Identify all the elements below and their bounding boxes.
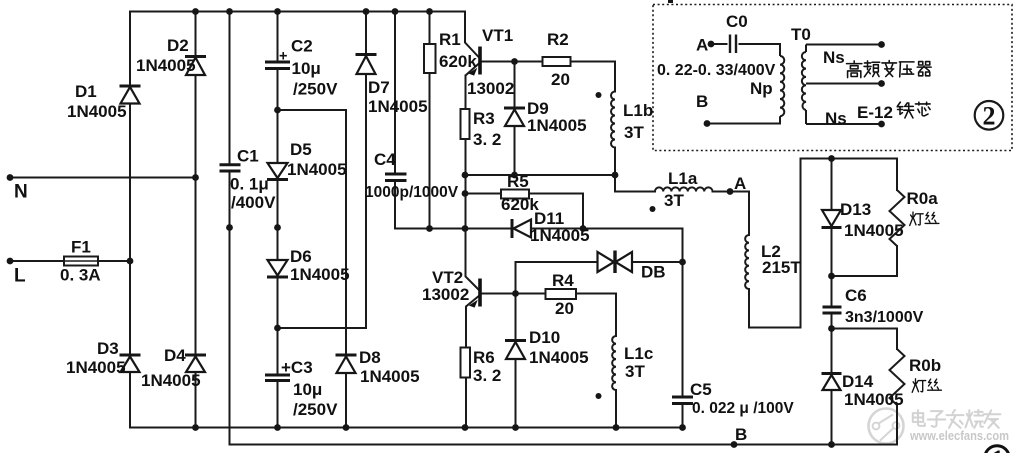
svg-text:1N4005: 1N4005 (844, 221, 904, 240)
svg-text:R1: R1 (439, 30, 461, 49)
svg-text:20: 20 (551, 70, 570, 89)
svg-text:/250V: /250V (293, 400, 338, 419)
svg-text:R6: R6 (473, 348, 495, 367)
svg-text:13002: 13002 (422, 285, 469, 304)
svg-text:T0: T0 (791, 25, 811, 44)
svg-text:D4: D4 (164, 346, 186, 365)
svg-text:215T: 215T (762, 258, 801, 277)
svg-text:1N4005: 1N4005 (141, 371, 201, 390)
svg-text:1N4005: 1N4005 (66, 358, 126, 377)
svg-text:D3: D3 (97, 339, 119, 358)
svg-text:/250V: /250V (293, 80, 338, 99)
svg-text:3T: 3T (624, 123, 644, 142)
svg-text:D10: D10 (529, 328, 560, 347)
svg-text:F1: F1 (71, 238, 91, 257)
svg-text:R0b: R0b (909, 356, 941, 375)
svg-text:/400V: /400V (231, 193, 276, 212)
svg-text:D7: D7 (368, 78, 390, 97)
svg-text:Np: Np (750, 79, 773, 98)
svg-text:B: B (735, 425, 747, 444)
svg-text:C0: C0 (726, 12, 748, 31)
svg-text:www.elecfans.com: www.elecfans.com (909, 428, 1009, 443)
svg-text:13002: 13002 (467, 79, 514, 98)
svg-text:10μ: 10μ (293, 380, 322, 399)
svg-text:10μ: 10μ (292, 59, 321, 78)
svg-text:1N4005: 1N4005 (529, 348, 589, 367)
svg-text:L1b: L1b (623, 101, 653, 120)
svg-text:620k: 620k (439, 52, 477, 71)
svg-text:1N4005: 1N4005 (360, 367, 420, 386)
svg-text:3T: 3T (664, 191, 684, 210)
svg-text:R2: R2 (547, 30, 569, 49)
svg-text:C1: C1 (237, 147, 259, 166)
svg-text:N: N (14, 182, 28, 203)
svg-text:+C3: +C3 (281, 358, 313, 377)
svg-text:D6: D6 (290, 247, 312, 266)
svg-text:1N4005: 1N4005 (527, 116, 587, 135)
svg-text:C4: C4 (374, 150, 396, 169)
svg-text:B: B (696, 92, 708, 111)
svg-text:Ns: Ns (823, 48, 845, 67)
svg-text:C2: C2 (291, 37, 313, 56)
svg-text:A: A (734, 174, 746, 193)
svg-text:VT1: VT1 (482, 26, 513, 45)
svg-text:L1a: L1a (668, 169, 698, 188)
svg-text:L: L (14, 266, 26, 287)
svg-text:0. 022 μ /100V: 0. 022 μ /100V (692, 400, 794, 417)
svg-text:1N4005: 1N4005 (290, 265, 350, 284)
svg-text:D13: D13 (840, 200, 871, 219)
svg-text:E-12: E-12 (857, 103, 893, 122)
svg-text:1N4005: 1N4005 (67, 102, 127, 121)
svg-text:D8: D8 (359, 348, 381, 367)
svg-text:C6: C6 (845, 286, 867, 305)
svg-text:1: 1 (991, 445, 1004, 453)
svg-text:2: 2 (983, 102, 996, 131)
svg-text:D1: D1 (75, 82, 97, 101)
svg-text:C5: C5 (690, 380, 712, 399)
svg-text:+: + (279, 49, 287, 65)
svg-text:R4: R4 (552, 271, 574, 290)
svg-text:Ns: Ns (825, 109, 847, 128)
svg-text:D14: D14 (842, 372, 874, 391)
svg-text:R3: R3 (473, 109, 495, 128)
svg-text:20: 20 (555, 299, 574, 318)
svg-text:1N4005: 1N4005 (136, 56, 196, 75)
svg-text:3n3/1000V: 3n3/1000V (845, 309, 924, 326)
svg-text:D5: D5 (290, 140, 312, 159)
svg-text:DB: DB (641, 263, 666, 282)
svg-text:0. 1μ: 0. 1μ (230, 175, 269, 194)
svg-text:D2: D2 (167, 36, 189, 55)
svg-text:1N4005: 1N4005 (530, 226, 590, 245)
svg-text:3T: 3T (625, 362, 645, 381)
svg-text:A: A (696, 36, 708, 55)
svg-text:1000p/1000V: 1000p/1000V (365, 184, 459, 201)
svg-text:1N4005: 1N4005 (844, 390, 904, 409)
svg-text:0. 22-0. 33/400V: 0. 22-0. 33/400V (657, 62, 776, 79)
svg-text:L1c: L1c (624, 344, 653, 363)
svg-text:R5: R5 (507, 172, 529, 191)
svg-text:R0a: R0a (907, 189, 939, 208)
svg-text:1N4005: 1N4005 (368, 97, 428, 116)
svg-text:1N4005: 1N4005 (287, 160, 347, 179)
svg-text:0. 3A: 0. 3A (60, 266, 101, 285)
svg-text:3. 2: 3. 2 (473, 130, 501, 149)
svg-text:3. 2: 3. 2 (473, 366, 501, 385)
